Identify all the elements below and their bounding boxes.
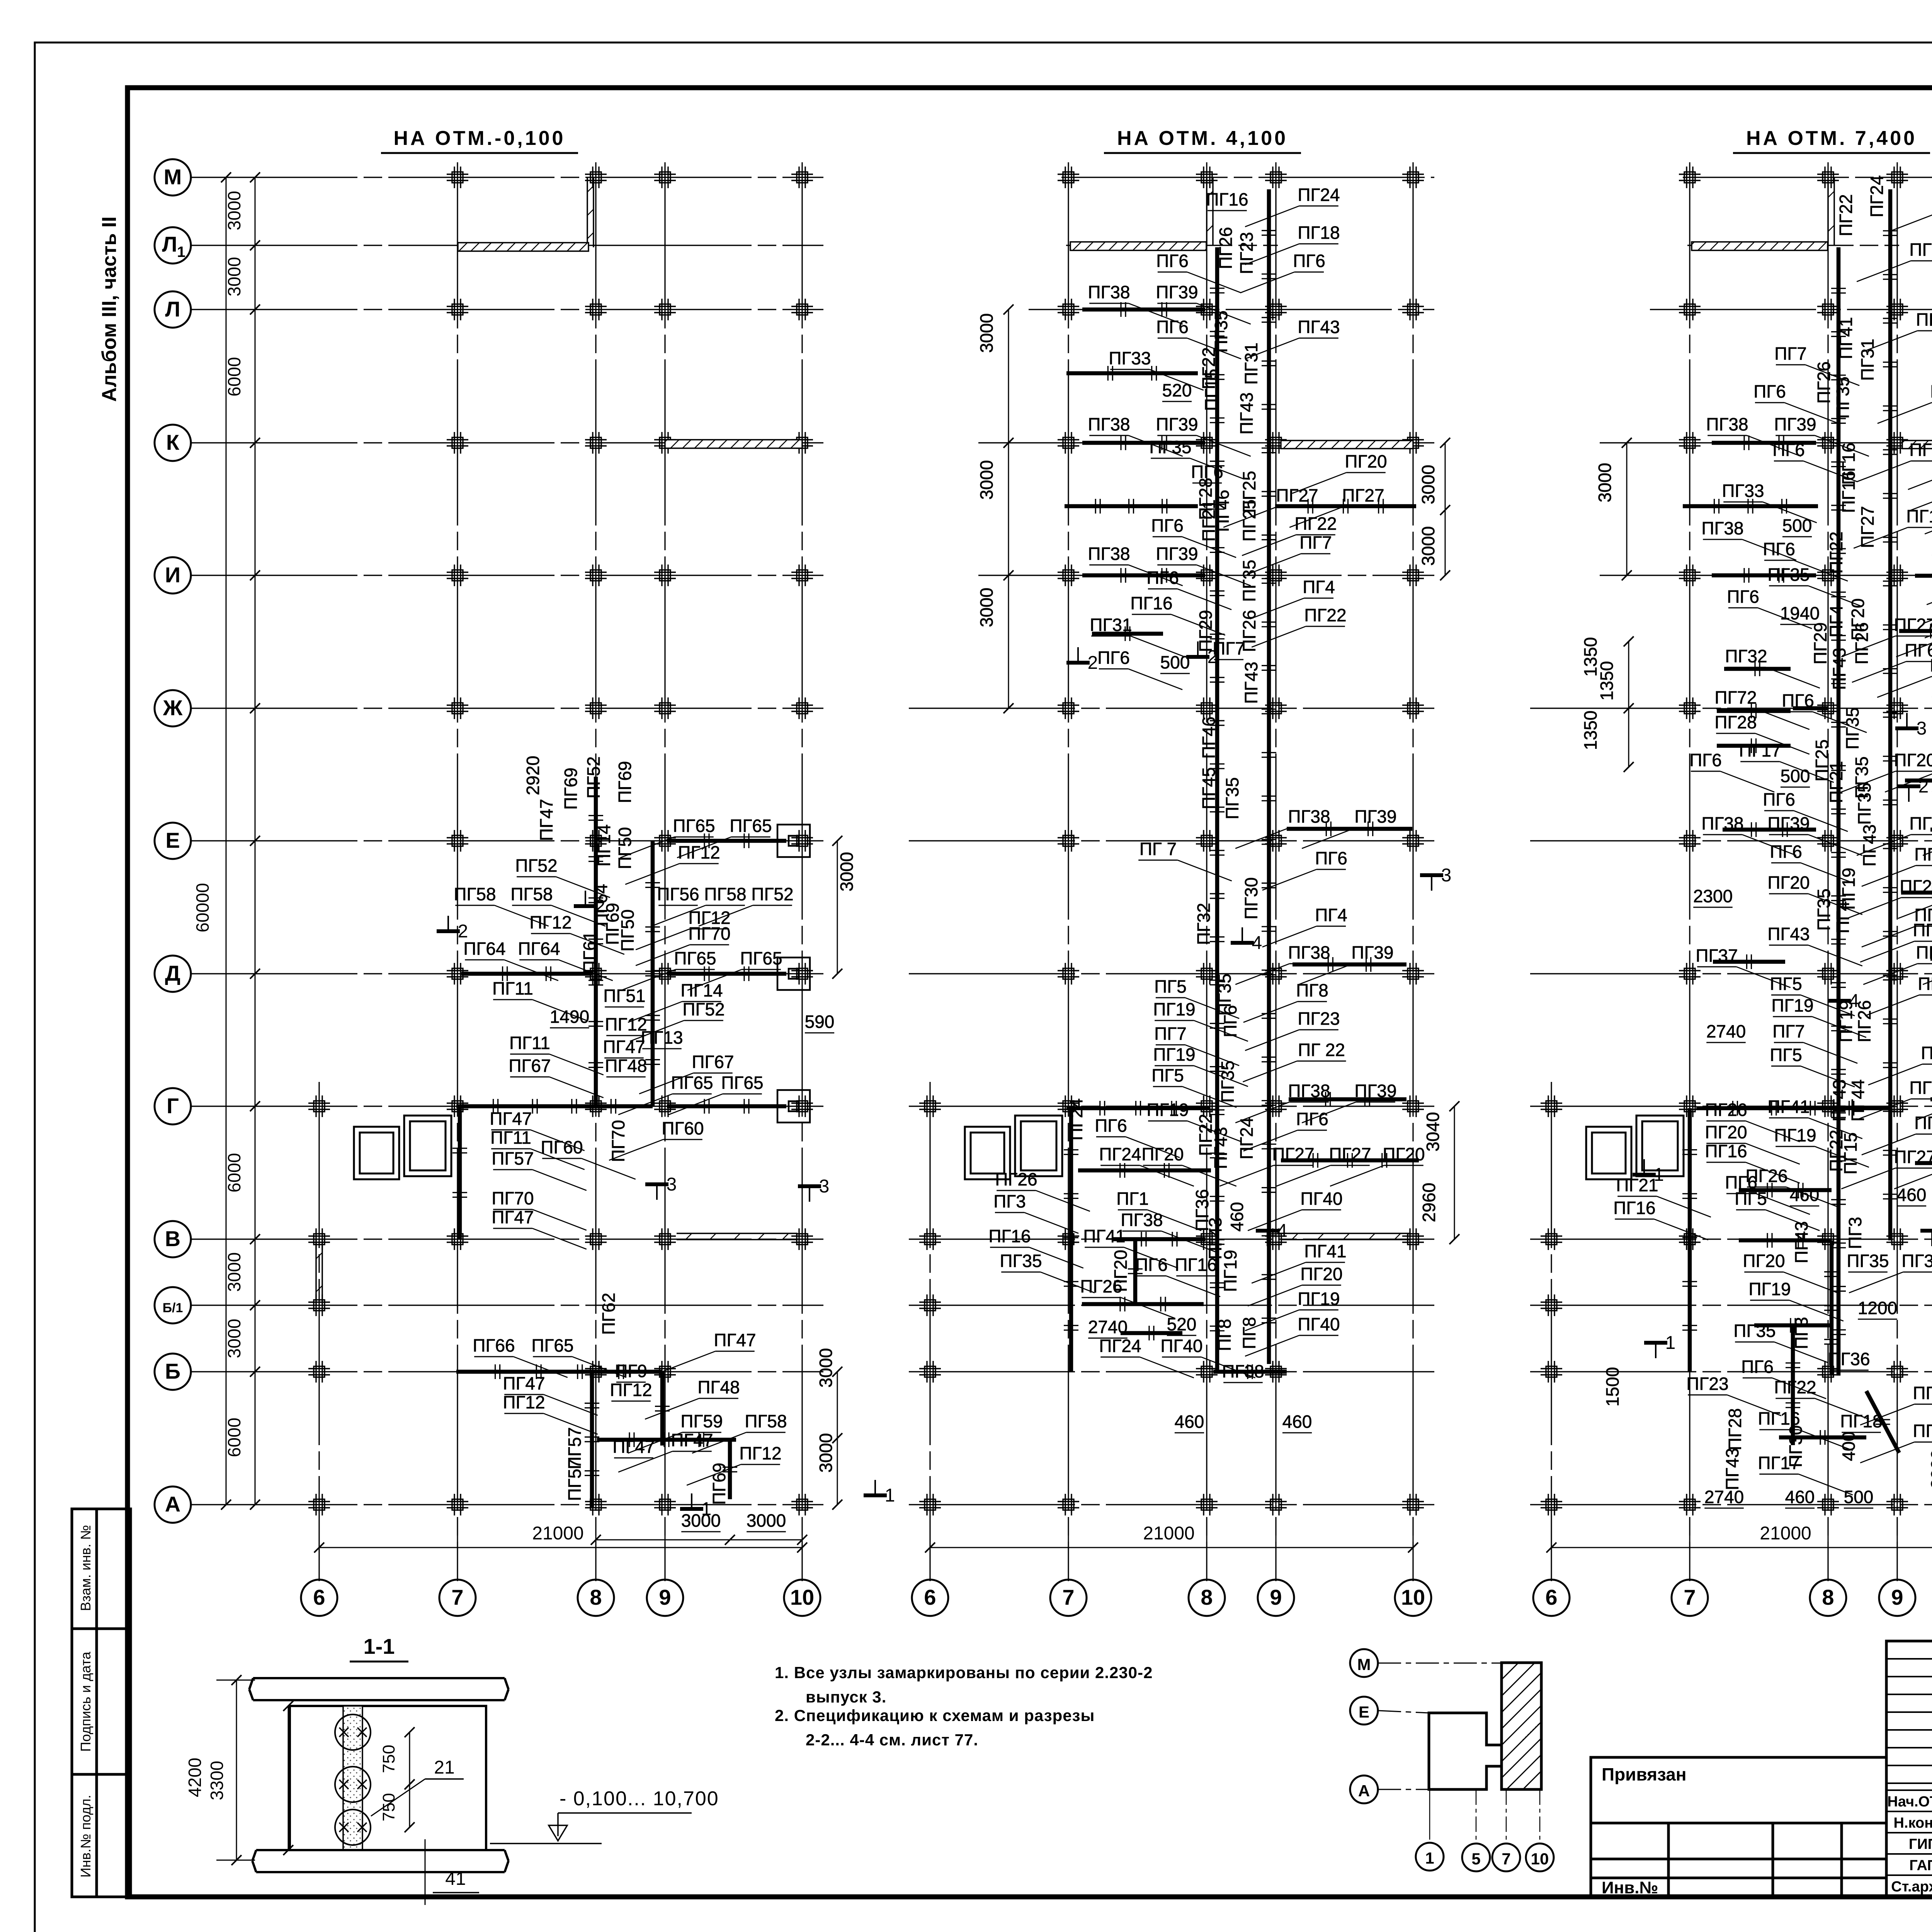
- svg-text:ПГ70: ПГ70: [492, 1188, 534, 1208]
- plan 1 column symbol 10Д: [791, 963, 813, 985]
- plan 3 column symbol 7И: [1679, 565, 1701, 586]
- label ПГ6: [1689, 750, 1774, 792]
- label ПГ35: [1000, 1251, 1094, 1293]
- wall: [728, 1440, 732, 1499]
- plan 3 column symbol 9В: [1886, 1228, 1908, 1250]
- svg-text:ПГ6: ПГ6: [1905, 640, 1932, 660]
- svg-text:ПГ56: ПГ56: [657, 884, 699, 904]
- plan 2 bottom axis circle 7: [1050, 1519, 1087, 1616]
- plan 3 column symbol 7В: [1679, 1228, 1701, 1250]
- svg-text:ПГ27: ПГ27: [1913, 1421, 1932, 1441]
- plan 2 bottom dimension line: [925, 1543, 1418, 1553]
- double-line wall: [587, 177, 588, 247]
- label ПГ14: [594, 824, 614, 866]
- svg-text:ПГ65: ПГ65: [673, 816, 715, 836]
- svg-text:ПГ44: ПГ44: [1848, 1079, 1868, 1121]
- label ПГ38: [1121, 1210, 1215, 1252]
- svg-text:ПГ60: ПГ60: [541, 1137, 583, 1157]
- svg-text:4: 4: [1277, 1221, 1287, 1241]
- svg-text:ПГ67: ПГ67: [509, 1056, 551, 1076]
- svg-text:Ст.архит.: Ст.архит.: [1891, 1879, 1932, 1895]
- svg-text:Альбом III, часть II: Альбом III, часть II: [98, 216, 121, 402]
- plan 1 column symbol 7М: [447, 167, 468, 188]
- svg-text:ПГ1: ПГ1: [1116, 1189, 1149, 1209]
- svg-text:ПГ43: ПГ43: [1298, 317, 1340, 337]
- svg-text:ПГ61: ПГ61: [580, 931, 600, 973]
- label ПГ30: [1786, 1425, 1806, 1467]
- label ПГ24: [1867, 175, 1887, 217]
- svg-text:ПГ35: ПГ35: [1814, 888, 1834, 930]
- label ПГ26: [1814, 361, 1834, 403]
- label ПГ47: [492, 1207, 586, 1249]
- svg-text:ПГ43: ПГ43: [1722, 1448, 1742, 1490]
- label ПГ27: [1857, 506, 1878, 548]
- plan 1 column symbol 6Б1: [308, 1294, 330, 1316]
- section detail grout strip: [343, 1706, 362, 1850]
- label ПГ27: [1223, 485, 1318, 527]
- label ПГ20: [1767, 872, 1862, 915]
- plan 1 grid column 10: [801, 162, 803, 1581]
- plan 1 column symbol 9М: [654, 167, 676, 188]
- svg-text:А: А: [165, 1492, 180, 1516]
- svg-text:ПГ40: ПГ40: [1298, 1314, 1340, 1334]
- label ПГ38: [1701, 518, 1796, 560]
- svg-text:ПГ39: ПГ39: [1354, 1081, 1396, 1101]
- label ПГ11: [492, 978, 587, 1020]
- svg-text:ПГ25: ПГ25: [1239, 499, 1259, 541]
- label ПГ45: [1199, 767, 1219, 809]
- label ПГ39: [1923, 942, 1932, 985]
- svg-text:ПГ8: ПГ8: [1918, 974, 1932, 994]
- svg-text:ПГ70: ПГ70: [608, 1120, 628, 1162]
- label ПГ6: [1862, 905, 1932, 947]
- svg-text:3000: 3000: [224, 257, 244, 296]
- svg-text:ПГ38: ПГ38: [1088, 282, 1130, 302]
- svg-text:ПГ26: ПГ26: [1852, 622, 1872, 664]
- label 3000: [816, 1433, 836, 1473]
- plan 3 grid row Л1: [1687, 245, 1899, 246]
- plan 2 grid row М: [1061, 177, 1434, 178]
- svg-text:ПГ38: ПГ38: [1088, 414, 1130, 434]
- label ПГ39: [1156, 544, 1250, 586]
- label ПГ6: [1097, 648, 1182, 690]
- wall: [1293, 963, 1406, 967]
- label ПГ52: [699, 884, 793, 926]
- svg-text:ПГ39: ПГ39: [1156, 544, 1198, 564]
- label ПГ27: [1894, 1147, 1932, 1189]
- label ПГ43: [1211, 1127, 1231, 1169]
- svg-text:ПГ43: ПГ43: [1829, 648, 1849, 690]
- svg-text:ПГ20: ПГ20: [1345, 451, 1387, 471]
- plan 2 column symbol 9Е: [1265, 830, 1287, 852]
- label ПГ43: [1241, 662, 1261, 704]
- svg-text:Д: Д: [165, 961, 180, 985]
- plan 1 column symbol 7К: [447, 432, 468, 454]
- label ПГ20: [1743, 1251, 1837, 1293]
- svg-text:9: 9: [1891, 1585, 1903, 1609]
- plan 1 column symbol 8Б: [585, 1361, 607, 1383]
- svg-text:Нач.ОТЭП: Нач.ОТЭП: [1887, 1794, 1932, 1810]
- hatched wall: [458, 243, 588, 251]
- svg-text:ПГ43: ПГ43: [1829, 1079, 1849, 1121]
- label ПГ20: [1111, 1250, 1131, 1292]
- plan 1 column symbol 9Ж: [654, 697, 676, 719]
- plan 1 grid row А: [191, 1504, 823, 1505]
- label ПГ32: [1194, 903, 1214, 945]
- label ПГ1: [1116, 1189, 1201, 1231]
- label ПГ35: [1852, 756, 1872, 798]
- label ПГ6: [1862, 844, 1932, 886]
- label ПГ39: [1923, 813, 1932, 855]
- plan 1 column symbol 8Л: [585, 299, 607, 320]
- wall: [1793, 706, 1828, 711]
- svg-text:6: 6: [313, 1585, 325, 1609]
- label ПГ12: [625, 842, 720, 884]
- plan 3 column symbol 7К: [1679, 432, 1701, 454]
- plan 2 column symbol 7Л: [1058, 299, 1079, 320]
- label ПГ22: [1252, 605, 1346, 647]
- label ПГ22: [1826, 1129, 1846, 1172]
- svg-text:ПГ31: ПГ31: [1090, 615, 1132, 635]
- svg-text:ПГ39: ПГ39: [1156, 414, 1198, 434]
- svg-text:500: 500: [1781, 766, 1810, 786]
- svg-text:ПГ39: ПГ39: [1767, 813, 1810, 833]
- label ПГ16: [1838, 442, 1859, 485]
- plan 2 column symbol 8К: [1196, 432, 1218, 454]
- svg-text:ПГ18: ПГ18: [1840, 1411, 1882, 1431]
- svg-text:ПГ27: ПГ27: [1342, 485, 1384, 505]
- label 500: [1844, 1487, 1874, 1508]
- svg-text:ПГ41: ПГ41: [1767, 1097, 1810, 1117]
- section mark 2: [1066, 647, 1098, 673]
- svg-text:7: 7: [1502, 1850, 1510, 1868]
- plan 2 column symbol 10М: [1402, 167, 1424, 188]
- svg-text:460: 460: [1227, 1202, 1247, 1232]
- label ПГ59: [628, 1411, 723, 1453]
- label ПГ62: [599, 1293, 619, 1335]
- wall: [1065, 504, 1198, 509]
- svg-text:41: 41: [445, 1869, 466, 1889]
- label ПГ64: [591, 884, 611, 926]
- label ПГ26: [1216, 227, 1236, 269]
- svg-text:ПГ22: ПГ22: [1836, 194, 1856, 236]
- plan 2 column symbol 6Б: [919, 1361, 941, 1383]
- plan 1 column symbol 7Г: [447, 1095, 468, 1117]
- plan 3 column symbol 8А: [1817, 1494, 1839, 1515]
- plan 1 grid row К: [191, 442, 823, 443]
- wall: [456, 1370, 662, 1374]
- section mark 2: [437, 916, 468, 942]
- svg-text:6: 6: [1545, 1585, 1557, 1609]
- plan 3 column symbol 6А: [1541, 1494, 1562, 1515]
- label ПГ6: [1262, 848, 1347, 890]
- plan 2 column symbol 10А: [1402, 1494, 1424, 1515]
- svg-text:ПГ 22: ПГ 22: [1298, 1040, 1345, 1060]
- label ПГ27: [1860, 1421, 1932, 1463]
- plan 3 column symbol 9И: [1886, 565, 1908, 586]
- label ПГ31: [1857, 338, 1878, 381]
- label ПГ22: [1196, 1114, 1216, 1156]
- svg-text:ПГ69: ПГ69: [709, 1463, 729, 1505]
- plan 3 header: [1733, 127, 1930, 153]
- svg-text:ПГ24: ПГ24: [1298, 185, 1340, 205]
- svg-text:ПГ59: ПГ59: [680, 1411, 723, 1431]
- plan 1 column symbol 9А: [654, 1494, 676, 1515]
- label ПГ13: [641, 1027, 683, 1049]
- wall: [1121, 1331, 1182, 1335]
- plan 1 column symbol 10Е: [791, 830, 813, 852]
- svg-text:3000: 3000: [224, 1319, 244, 1358]
- svg-text:6000: 6000: [224, 1418, 244, 1457]
- svg-text:3000: 3000: [976, 588, 997, 627]
- label ПГ35: [1767, 565, 1862, 607]
- plan 1 column symbol 7В: [447, 1228, 468, 1250]
- svg-text:ПГ40: ПГ40: [1300, 1189, 1342, 1209]
- label ПГ19: [1153, 999, 1248, 1041]
- plan 3 grid row Д: [1530, 973, 1932, 974]
- svg-text:ПГ26: ПГ26: [1745, 1166, 1787, 1186]
- label ПГ25: [1239, 499, 1259, 541]
- label ПГ40: [1160, 1336, 1255, 1378]
- label ПГ20: [1141, 1144, 1236, 1186]
- svg-text:ПГ6: ПГ6: [1689, 750, 1722, 770]
- svg-text:ПГ51: ПГ51: [603, 986, 645, 1006]
- section detail dowel circle 1: [335, 1714, 371, 1750]
- label ПГ6: [1095, 1116, 1180, 1158]
- plan 3 grid row Ж: [1530, 707, 1932, 709]
- svg-text:ПГ16: ПГ16: [1909, 240, 1932, 260]
- svg-text:ПГ65: ПГ65: [721, 1073, 763, 1093]
- svg-text:ПГ38: ПГ38: [1088, 544, 1130, 564]
- plan 2 column symbol 7Д: [1058, 963, 1079, 985]
- double-line wall: [1282, 1233, 1410, 1234]
- label ПГ27: [1219, 1144, 1314, 1186]
- signature row ГИП: [1909, 1836, 1932, 1852]
- wall: [1066, 371, 1198, 376]
- label ПГ20: [1705, 1122, 1799, 1164]
- dim 750 lower: [379, 1779, 415, 1832]
- plan 1 bottom axis circle 8: [578, 1519, 614, 1616]
- plan 2 window symbol b: [1015, 1116, 1062, 1176]
- label ПГ18: [1245, 223, 1340, 265]
- wall: [1899, 629, 1932, 633]
- plan 3 column symbol 6Б: [1541, 1361, 1562, 1383]
- key plan hatched block: [1486, 1663, 1541, 1789]
- svg-text:2960: 2960: [1419, 1183, 1439, 1222]
- svg-text:ПГ38: ПГ38: [1288, 942, 1330, 963]
- svg-text:ПГ19: ПГ19: [1906, 506, 1932, 526]
- plan 1 column symbol 9В: [654, 1228, 676, 1250]
- svg-text:ПГ52: ПГ52: [515, 855, 557, 876]
- plan 1 grid row Л1: [191, 245, 823, 246]
- title block signature table: [1886, 1641, 1932, 1897]
- svg-text:ПГ24: ПГ24: [1099, 1336, 1141, 1356]
- svg-text:ПГ35: ПГ35: [1833, 376, 1853, 418]
- plan 1 column symbol 9Л: [654, 299, 676, 320]
- svg-text:1490: 1490: [550, 1007, 589, 1027]
- plan 1 bottom axis circle 9: [647, 1519, 683, 1616]
- plan 1 bottom axis circle 10: [784, 1519, 820, 1616]
- svg-text:ПГ57: ПГ57: [492, 1148, 534, 1168]
- label ПГ15: [1201, 369, 1221, 411]
- label ПГ39: [1302, 1081, 1396, 1123]
- svg-text:1: 1: [177, 244, 185, 260]
- wall: [590, 1372, 594, 1507]
- plan 2 column symbol 8Е: [1196, 830, 1218, 852]
- svg-text:ПГ6: ПГ6: [1315, 848, 1347, 868]
- label ПГ6: [1741, 1357, 1826, 1399]
- dim chain plan2 right: [1454, 1106, 1455, 1239]
- svg-text:ПГ43: ПГ43: [1859, 824, 1879, 866]
- svg-text:ПГ16: ПГ16: [1175, 1255, 1217, 1275]
- svg-text:ПГ38: ПГ38: [1701, 518, 1743, 538]
- svg-text:ПГ38: ПГ38: [1909, 813, 1932, 833]
- svg-text:ПГ6: ПГ6: [1930, 381, 1932, 401]
- svg-text:6000: 6000: [224, 1153, 244, 1192]
- svg-text:ПГ57: ПГ57: [565, 1459, 585, 1501]
- label ПГ7: [1772, 1021, 1857, 1063]
- svg-text:3: 3: [667, 1174, 677, 1195]
- label ПГ18: [1889, 189, 1932, 231]
- svg-text:ПГ4: ПГ4: [1833, 901, 1853, 934]
- svg-text:ПГ16: ПГ16: [1838, 471, 1859, 513]
- label ПГ52: [515, 855, 610, 898]
- svg-text:Л: Л: [162, 232, 177, 256]
- label 2740: [1706, 1021, 1746, 1043]
- label ПГ31: [1090, 615, 1184, 657]
- svg-text:2. Спецификацию к схемам и раз: 2. Спецификацию к схемам и разрезы: [775, 1706, 1095, 1725]
- label ПГ43: [1722, 1448, 1742, 1490]
- label ПГ12: [687, 1443, 781, 1485]
- key plan axis 7: [1492, 1789, 1520, 1871]
- label ПГ26: [1080, 1276, 1175, 1318]
- label ПГ35: [1222, 777, 1242, 819]
- plan 3 column symbol 9М: [1886, 167, 1908, 188]
- label ПГ20: [1925, 492, 1932, 534]
- svg-text:1350: 1350: [1597, 661, 1617, 701]
- dim chain plan1 right БА: [837, 1372, 838, 1505]
- svg-text:Инв.№ подл.: Инв.№ подл.: [78, 1795, 94, 1878]
- svg-text:ПГ5: ПГ5: [1770, 974, 1802, 994]
- svg-text:ПГ35: ПГ35: [1733, 1321, 1776, 1341]
- svg-text:ПГ19: ПГ19: [1748, 1279, 1791, 1299]
- svg-text:ПГ69: ПГ69: [561, 767, 581, 810]
- section detail bottom slab: [252, 1850, 509, 1872]
- svg-text:ПГ11: ПГ11: [509, 1033, 550, 1053]
- label 1350: [1597, 661, 1617, 701]
- svg-text:8: 8: [1201, 1585, 1213, 1609]
- plan 1 bottom axis circle 6: [301, 1519, 337, 1616]
- svg-text:ПГ12: ПГ12: [678, 842, 720, 862]
- svg-text:6000: 6000: [224, 357, 244, 396]
- svg-text:2740: 2740: [1088, 1317, 1128, 1337]
- svg-text:ПГ41: ПГ41: [1836, 317, 1856, 359]
- plan 2 column symbol 9И: [1265, 565, 1287, 586]
- label ПГ65: [618, 1073, 713, 1115]
- label ПГ6: [1725, 1172, 1810, 1214]
- plan 1 grid row Л: [191, 309, 823, 310]
- plan 1 column symbol 8М: [585, 167, 607, 188]
- svg-text:ПГ6: ПГ6: [1146, 568, 1179, 588]
- svg-text:ПГ20: ПГ20: [1743, 1251, 1785, 1271]
- plan 1 column symbol 10А: [791, 1494, 813, 1515]
- svg-text:2920: 2920: [523, 756, 543, 795]
- svg-text:ПГ27: ПГ27: [1272, 1144, 1314, 1164]
- key plan open block: [1429, 1713, 1502, 1789]
- label ПГ28: [1196, 478, 1216, 520]
- plan 3 column symbol 7Л: [1679, 299, 1701, 320]
- wall: [597, 1438, 736, 1442]
- label ПГ16: [1705, 1141, 1799, 1183]
- signature row Ст.архит.: [1891, 1879, 1932, 1895]
- plan 2 grid row Б: [909, 1371, 1434, 1372]
- label ПГ6: [1770, 842, 1855, 884]
- wall: [1082, 308, 1205, 312]
- svg-text:1: 1: [1654, 1165, 1664, 1185]
- svg-text:ПГ15: ПГ15: [1201, 369, 1221, 411]
- svg-text:ПГ8: ПГ8: [1214, 1319, 1235, 1351]
- label ПГ20: [1848, 598, 1868, 640]
- label ПГ43: [1859, 824, 1879, 866]
- wall: [667, 972, 786, 976]
- plan 3 grid row К: [1600, 442, 1932, 443]
- wall: [1717, 744, 1791, 748]
- label ПГ6: [1852, 640, 1932, 682]
- svg-text:2000: 2000: [1927, 1449, 1932, 1489]
- label ПГ9: [615, 1361, 647, 1382]
- label ПГ35: [1214, 973, 1235, 1015]
- svg-text:ПГ6: ПГ6: [1293, 251, 1325, 271]
- label ПГ7: [1247, 532, 1332, 575]
- label ПГ3: [993, 1191, 1078, 1233]
- svg-text:ПГ28: ПГ28: [1714, 712, 1757, 732]
- label ПГ4: [1826, 605, 1846, 638]
- svg-text:ПГ6: ПГ6: [1135, 1255, 1168, 1275]
- label ПГ21: [1826, 761, 1846, 803]
- svg-text:ПГ65: ПГ65: [730, 816, 772, 836]
- svg-text:1: 1: [885, 1485, 895, 1506]
- plan 1 column symbol 9Б: [654, 1361, 676, 1383]
- svg-text:Инв.№: Инв.№: [1602, 1878, 1658, 1897]
- plan 1 column symbol 8Е: [585, 830, 607, 852]
- label ПГ65: [531, 1335, 626, 1378]
- label ПГ16: [1613, 1198, 1708, 1240]
- svg-text:ПГ35: ПГ35: [1842, 707, 1862, 749]
- label 1490: [550, 1007, 589, 1028]
- svg-text:3: 3: [1917, 718, 1927, 739]
- label ПГ38: [1701, 813, 1796, 855]
- label ПГ47: [503, 1373, 597, 1415]
- plan 2 column symbol 8И: [1196, 565, 1218, 586]
- signature row Н.контр.: [1893, 1815, 1932, 1831]
- label ПГ17: [1739, 740, 1833, 782]
- label ПГ6: [1753, 381, 1838, 423]
- label ПГ46: [1213, 490, 1233, 532]
- label ПГ7: [1213, 638, 1245, 660]
- dim 4200: [185, 1675, 255, 1865]
- svg-text:ПГ24: ПГ24: [1236, 1117, 1257, 1159]
- wall: [667, 839, 786, 843]
- plan 2 grid row Л: [1029, 309, 1434, 310]
- plan 3 column symbol 9Л: [1886, 299, 1908, 320]
- label ПГ35: [1814, 888, 1834, 930]
- plan 3 grid row Б: [1530, 1371, 1932, 1372]
- plan 2 grid row Ж: [909, 707, 1434, 709]
- label ПГ69: [709, 1463, 729, 1505]
- svg-text:ПГ12: ПГ12: [529, 912, 571, 932]
- svg-text:ПГ33: ПГ33: [1109, 348, 1151, 368]
- svg-text:Л: Л: [165, 297, 180, 321]
